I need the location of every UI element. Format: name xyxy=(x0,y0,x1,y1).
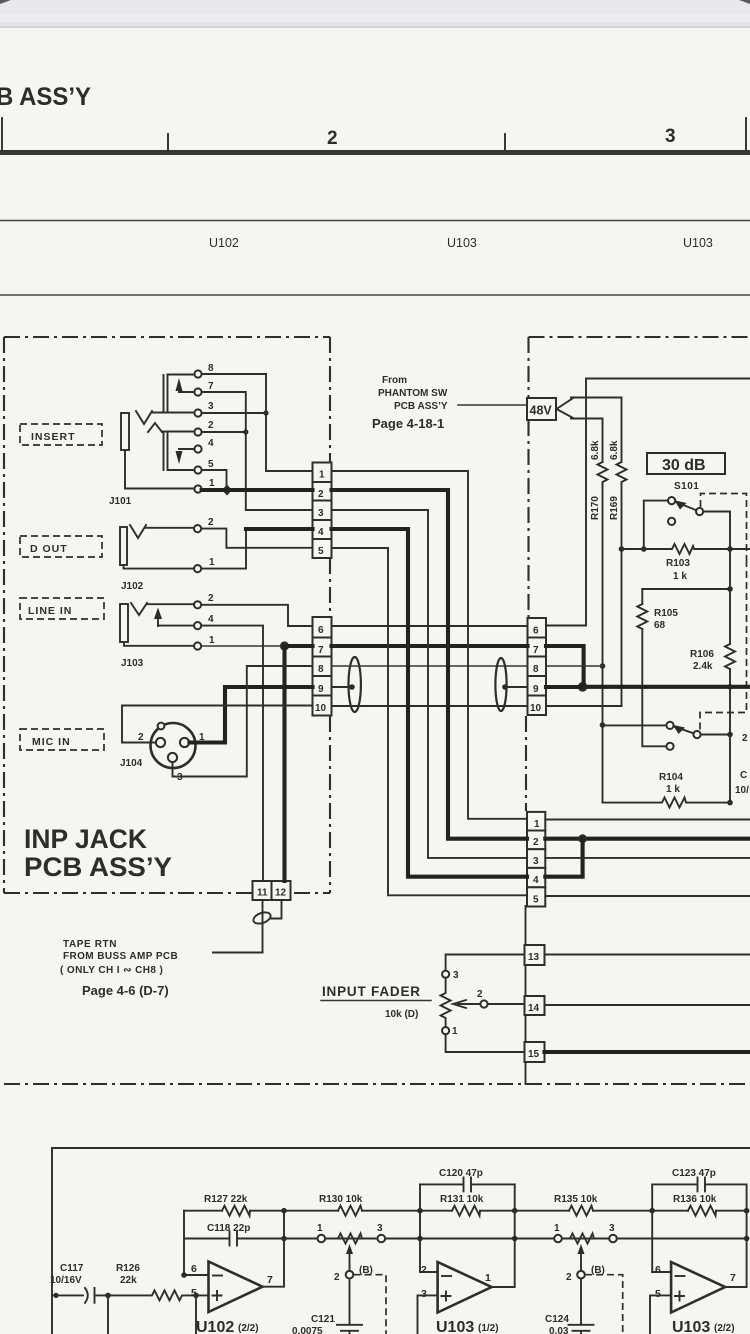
svg-text:R105: R105 xyxy=(654,608,678,619)
op-amp U102 triangle xyxy=(209,1262,263,1313)
svg-text:C: C xyxy=(740,770,747,781)
svg-text:2: 2 xyxy=(533,837,539,848)
connector CN-A pin 2 xyxy=(313,482,332,501)
pad bus y549 xyxy=(622,548,750,550)
svg-text:3: 3 xyxy=(665,126,676,147)
junction pin3 on pin8 net xyxy=(263,410,268,415)
jack J103 tip contact V xyxy=(131,603,147,615)
XLR pin 2 contact xyxy=(156,738,165,747)
pot1 terminal 3 xyxy=(378,1235,386,1243)
resistor R127 zigzag xyxy=(222,1206,250,1216)
connector CN-D pin 4 xyxy=(527,868,545,887)
wire J101-7 to CN-A3 xyxy=(202,392,313,510)
ruler tick left xyxy=(1,118,3,150)
svg-text:7: 7 xyxy=(318,645,324,656)
INP JACK PCB border top xyxy=(4,336,330,338)
XLR J104 shell xyxy=(151,723,196,768)
wire CN-B6 to CN-C6 xyxy=(332,625,528,627)
wire CN-D3 right xyxy=(545,857,750,859)
connector spine below box14 xyxy=(525,1015,527,1042)
wire XLR-2 loop to CN-B10 xyxy=(122,706,313,743)
wire CN-D2 right thick xyxy=(545,837,750,841)
input riser U103a xyxy=(419,1184,421,1272)
wire J101-2 stub xyxy=(202,431,246,433)
connector CN-C pin 10 xyxy=(528,696,547,716)
feedback riser left xyxy=(183,1211,185,1275)
svg-text:D OUT: D OUT xyxy=(30,543,68,555)
XLR pin 3 contact xyxy=(168,753,177,762)
pot2 terminal 1 xyxy=(554,1235,562,1243)
resistor R106 zigzag vertical xyxy=(725,644,735,669)
svg-text:( ONLY CH I ∾ CH8 ): ( ONLY CH I ∾ CH8 ) xyxy=(60,965,163,976)
INP JACK PCB border bottom xyxy=(4,892,330,894)
svg-text:S101: S101 xyxy=(674,481,699,492)
svg-text:6: 6 xyxy=(191,1263,197,1275)
svg-text:8: 8 xyxy=(533,664,539,675)
svg-text:9: 9 xyxy=(318,684,324,695)
connector spine below box15 xyxy=(525,1062,527,1084)
wire pot2 wiper to C124 xyxy=(580,1279,582,1325)
svg-text:2: 2 xyxy=(334,1272,340,1283)
label box LINE IN xyxy=(20,598,104,619)
U103b minus sign xyxy=(676,1275,685,1277)
svg-text:(1/2): (1/2) xyxy=(478,1323,499,1334)
connector CN-C pin 6 xyxy=(528,618,547,638)
J101 pin 3 circle xyxy=(194,409,201,416)
wire J103-4 to CN11 xyxy=(202,626,263,881)
wire R169 down to CN-C10 level xyxy=(621,484,623,706)
shield ellipse right xyxy=(495,658,506,711)
wire C120 line xyxy=(420,1183,515,1185)
jack J102 tip contact V xyxy=(130,525,146,538)
capacitor C118 xyxy=(230,1232,238,1246)
wire R135 line xyxy=(515,1210,653,1212)
ruler tick right xyxy=(745,118,747,150)
wire R131 line xyxy=(420,1210,515,1212)
pointer line tape rtn xyxy=(213,952,263,954)
svg-text:C124: C124 xyxy=(545,1314,569,1325)
svg-text:4: 4 xyxy=(533,875,539,886)
junction out3/R136 xyxy=(744,1208,750,1214)
svg-text:1 k: 1 k xyxy=(666,784,680,795)
J101 pin 5 circle xyxy=(194,466,201,473)
svg-text:C121: C121 xyxy=(311,1314,335,1325)
svg-text:3: 3 xyxy=(609,1223,615,1234)
connector CN-C pin 7 xyxy=(528,638,547,657)
svg-text:U103: U103 xyxy=(436,1319,474,1334)
dashed gang linkage mid xyxy=(700,560,747,730)
svg-text:U103: U103 xyxy=(447,236,477,250)
S101a throw contact xyxy=(696,508,703,515)
svg-text:2.4k: 2.4k xyxy=(693,661,713,672)
junction S101b throw xyxy=(727,732,733,738)
svg-text:13: 13 xyxy=(528,952,540,963)
S101b throw contact xyxy=(693,731,700,738)
wire J101 bar bottom to pin5 xyxy=(168,469,195,471)
connector CN-B pin 7 xyxy=(313,638,332,657)
connector CN-A pin 4 xyxy=(313,520,332,539)
pot2 element zigzag xyxy=(570,1234,594,1244)
jack J101 body bar xyxy=(121,413,129,450)
connector pin 12 xyxy=(272,881,291,900)
J103 pin 1 circle xyxy=(194,642,201,649)
wire J102-2 to CN-A5 xyxy=(202,529,313,548)
wire thick CN12 riser xyxy=(282,646,286,881)
jack J101 normalling bars lower xyxy=(164,433,168,470)
wire fader-1 to CN15 xyxy=(446,1034,525,1052)
wire 48V to R169 top xyxy=(571,398,622,463)
U103a plus sign xyxy=(442,1292,451,1301)
fader terminal 1 xyxy=(442,1027,449,1034)
svg-text:J101: J101 xyxy=(109,496,132,507)
junction riser/rail xyxy=(417,1236,423,1242)
svg-text:30 dB: 30 dB xyxy=(662,457,706,474)
svg-text:7: 7 xyxy=(533,645,539,656)
svg-text:22k: 22k xyxy=(120,1275,137,1286)
op-amp U103a triangle xyxy=(438,1262,492,1313)
wire J102 tip to pin2 xyxy=(146,527,194,529)
dashed gang linkage upper xyxy=(701,494,747,561)
svg-text:R170: R170 xyxy=(590,496,601,520)
ruler tick x168 xyxy=(167,134,169,150)
wire CN-C6 up and over xyxy=(546,379,750,626)
U103a minus sign xyxy=(442,1275,451,1277)
svg-text:Page 4-6 (D-7): Page 4-6 (D-7) xyxy=(82,983,169,998)
svg-text:J104: J104 xyxy=(120,758,143,769)
pot rail y1238 xyxy=(284,1238,747,1240)
wire CN-A1 right nested xyxy=(332,471,528,819)
svg-text:1: 1 xyxy=(485,1272,491,1284)
resistor R130 zigzag xyxy=(338,1206,362,1216)
wire CN-D5 right xyxy=(545,895,750,897)
svg-text:PHANTOM SW: PHANTOM SW xyxy=(378,388,448,399)
big junction mic bus xyxy=(578,682,588,692)
svg-text:10: 10 xyxy=(530,703,542,714)
junction dot line-in 1 xyxy=(280,641,289,650)
connector CN-A pin 3 xyxy=(313,501,332,521)
J101 pin 2 circle xyxy=(194,428,201,435)
svg-text:FROM BUSS AMP PCB: FROM BUSS AMP PCB xyxy=(63,951,178,962)
svg-text:U102: U102 xyxy=(196,1319,234,1334)
svg-text:48V: 48V xyxy=(530,404,553,418)
wire CN-C9 stub thick xyxy=(546,685,581,689)
wire tip V to pin3 xyxy=(152,412,194,414)
XLR pin 1 contact xyxy=(180,738,189,747)
svg-text:2: 2 xyxy=(138,732,144,743)
resistor R126 zigzag xyxy=(150,1290,184,1300)
wire J103-1 to junction xyxy=(202,645,285,647)
svg-text:2: 2 xyxy=(208,517,214,528)
svg-text:3: 3 xyxy=(453,970,459,981)
svg-text:10/16V: 10/16V xyxy=(50,1275,82,1286)
wire J103 ring arrow to pin4 xyxy=(158,625,194,627)
INP JACK PCB border right (lower) xyxy=(329,716,331,893)
twisted pair loop xyxy=(252,910,272,926)
svg-text:U103: U103 xyxy=(672,1319,710,1334)
output riser U103a xyxy=(492,1184,515,1287)
wire CN-B9 shield stub right xyxy=(332,686,352,688)
U102 minus sign xyxy=(213,1275,222,1277)
mic thick bus y687 xyxy=(583,685,750,689)
svg-text:11: 11 xyxy=(257,888,268,899)
corner mark left xyxy=(0,0,11,4)
capacitor C121 xyxy=(337,1325,362,1334)
svg-text:R106: R106 xyxy=(690,649,714,660)
ruler heavy line xyxy=(0,150,750,155)
junction bus/R106 xyxy=(727,546,733,552)
wire J102-1 to CN-A4 xyxy=(202,529,246,569)
svg-text:R103: R103 xyxy=(666,558,690,569)
svg-text:2: 2 xyxy=(208,593,214,604)
svg-text:3: 3 xyxy=(208,401,214,412)
resistor R105 zigzag vertical xyxy=(637,604,647,629)
INP JACK PCB border right (mid) xyxy=(329,558,331,617)
junction drop 2 xyxy=(193,1293,199,1299)
label box INSERT xyxy=(20,424,102,445)
junction R170/box8 xyxy=(600,663,606,669)
resistor R104 zigzag xyxy=(660,798,688,808)
junction CN-D2 xyxy=(578,834,587,843)
J103 pin 4 circle xyxy=(194,622,201,629)
wire pin4 stub to arrow xyxy=(179,448,194,450)
wire J103 sleeve to pin1 xyxy=(124,642,194,646)
horizontal rule y220 xyxy=(0,220,750,222)
wire J101 bar top to pin8 xyxy=(168,374,195,376)
wire J101-1 to CN-A2 thick xyxy=(202,488,313,492)
wire S101b throw to R106 net xyxy=(701,734,730,736)
svg-text:TAPE RTN: TAPE RTN xyxy=(63,939,117,950)
S101b lever xyxy=(675,727,694,734)
svg-text:(2/2): (2/2) xyxy=(714,1323,735,1334)
J102 pin 1 circle xyxy=(194,565,201,572)
svg-text:B ASS’Y: B ASS’Y xyxy=(0,83,91,111)
fader wiper arrow xyxy=(453,1000,480,1008)
junction feedback riser xyxy=(181,1272,187,1278)
svg-text:INP JACK: INP JACK xyxy=(24,824,147,854)
J101 pin 7 circle xyxy=(194,388,201,395)
svg-text:Page 4-18-1: Page 4-18-1 xyxy=(372,416,444,431)
junction out2/R131 xyxy=(512,1208,518,1214)
status bar strip xyxy=(0,0,750,27)
U102 plus sign xyxy=(213,1291,222,1300)
wire fader-3 to CN13 xyxy=(446,955,525,971)
connector CN-A pin 5 xyxy=(313,539,332,558)
shield stub dot xyxy=(349,684,355,690)
wire U103a pin2 xyxy=(420,1271,438,1273)
svg-text:6.8k: 6.8k xyxy=(609,440,620,460)
svg-text:2: 2 xyxy=(477,989,483,1000)
label box D OUT xyxy=(20,536,102,557)
svg-text:1 k: 1 k xyxy=(673,571,687,582)
connector CN-D pin 3 xyxy=(527,849,545,868)
wire R106 bottom xyxy=(729,669,731,803)
bias drop wire 2 xyxy=(195,1295,197,1334)
connector CN-D pin 5 xyxy=(527,887,545,906)
svg-text:R104: R104 xyxy=(659,772,683,783)
svg-text:1: 1 xyxy=(209,635,215,646)
connector pin 11 xyxy=(253,881,272,900)
svg-text:2: 2 xyxy=(421,1264,427,1276)
svg-text:1: 1 xyxy=(452,1026,458,1037)
shield dot right xyxy=(502,684,508,690)
wire CN-A3 right nested xyxy=(332,510,528,858)
pot1 element zigzag xyxy=(338,1234,362,1244)
connector spine below box13 xyxy=(525,965,527,996)
svg-text:R169: R169 xyxy=(609,496,620,520)
wire CN-D1 right xyxy=(545,819,750,821)
svg-text:1: 1 xyxy=(319,470,325,481)
svg-text:R130 10k: R130 10k xyxy=(319,1194,363,1205)
capacitor C117 xyxy=(85,1288,95,1303)
wire R105 top xyxy=(641,589,643,604)
J101 pin 8 circle xyxy=(194,370,201,377)
svg-text:PCB ASS’Y: PCB ASS’Y xyxy=(394,401,448,412)
wire C123 line xyxy=(652,1183,746,1185)
wire J103 tip to pin2 xyxy=(147,603,194,605)
svg-text:3: 3 xyxy=(421,1288,427,1300)
svg-text:5: 5 xyxy=(655,1288,661,1300)
wire shield to CN-C9 xyxy=(504,686,528,688)
junction R169/bus549 xyxy=(619,546,625,552)
svg-text:INPUT FADER: INPUT FADER xyxy=(322,984,421,999)
connector CN-C pin 8 xyxy=(528,657,547,677)
svg-text:5: 5 xyxy=(533,895,539,906)
fader element zigzag xyxy=(441,978,451,1027)
pot1 terminal 1 xyxy=(318,1235,326,1243)
svg-text:3: 3 xyxy=(377,1223,383,1234)
wire J102 sleeve to pin1 xyxy=(124,565,195,569)
wire CN-C8 to R170 xyxy=(546,665,603,667)
junction drop 1 xyxy=(105,1293,111,1299)
wire 48V to R170 top xyxy=(571,419,603,463)
ruler tick x505 xyxy=(504,134,506,150)
junction R170/switch wire xyxy=(600,722,606,728)
svg-text:10k (D): 10k (D) xyxy=(385,1009,418,1020)
svg-text:68: 68 xyxy=(654,620,666,631)
svg-text:1: 1 xyxy=(554,1223,560,1234)
junction R104 right xyxy=(727,800,733,806)
connector CN-C pin 9 xyxy=(528,676,547,696)
svg-text:C123 47p: C123 47p xyxy=(672,1168,716,1179)
wire R170 down to R104 corner xyxy=(602,484,604,803)
svg-text:0.03: 0.03 xyxy=(549,1326,569,1334)
pot1 wiper arrow xyxy=(349,1250,351,1271)
svg-text:10: 10 xyxy=(315,703,327,714)
junction y589 right xyxy=(727,586,733,592)
svg-text:R135 10k: R135 10k xyxy=(554,1194,598,1205)
wire CN-A5 right nested xyxy=(332,548,528,895)
label box MIC IN xyxy=(20,729,104,750)
input riser U103b xyxy=(651,1184,653,1272)
resistor R169 zigzag xyxy=(617,462,627,484)
svg-text:8: 8 xyxy=(318,664,324,675)
svg-text:1: 1 xyxy=(209,478,215,489)
jack J101 contact arrow up xyxy=(176,378,183,391)
wire CN14 right xyxy=(545,1004,750,1006)
svg-text:7: 7 xyxy=(730,1272,736,1284)
svg-text:6: 6 xyxy=(533,626,539,637)
connector CN-A pin 1 xyxy=(313,463,332,483)
svg-text:4: 4 xyxy=(208,438,214,449)
connector pin 14 xyxy=(525,996,545,1015)
svg-text:10/: 10/ xyxy=(735,785,749,796)
connector CN-B pin 6 xyxy=(313,617,332,638)
INPUT FADER underline xyxy=(321,1000,431,1002)
wire XLR-3 to CN-B8 xyxy=(173,666,313,777)
S101a lever xyxy=(676,502,696,510)
wire CN-B8 to CN-C8 xyxy=(332,665,528,667)
resistor R131 zigzag xyxy=(452,1206,480,1216)
wire U103b pin6 xyxy=(652,1271,671,1273)
capacitor C123 xyxy=(698,1177,706,1191)
op-amp U103b triangle xyxy=(671,1262,725,1313)
svg-text:MIC IN: MIC IN xyxy=(32,736,71,748)
wire J103-2 to CN-B6 xyxy=(202,605,313,626)
S101a common contact xyxy=(668,497,675,504)
feedback top wire R127 xyxy=(184,1210,284,1212)
resistor R103 zigzag xyxy=(670,544,696,554)
svg-text:LINE IN: LINE IN xyxy=(28,605,72,617)
connector CN-D pin 2 xyxy=(527,831,545,850)
wire CN11 down to pointer xyxy=(262,900,264,953)
svg-text:R136 10k: R136 10k xyxy=(673,1194,717,1205)
connector CN-B pin 9 xyxy=(313,676,332,696)
jack J103 body bar xyxy=(120,604,128,642)
horizontal rule y295 xyxy=(0,294,750,296)
svg-text:3: 3 xyxy=(177,772,183,783)
resistor R135 zigzag xyxy=(569,1206,593,1216)
svg-text:7: 7 xyxy=(208,381,214,392)
INP JACK PCB border right (upper) xyxy=(329,337,331,462)
wire fader-2 to CN14 xyxy=(488,1003,525,1005)
input wire to C117 xyxy=(52,1294,83,1296)
wire CN-D2 to CN-D4 jog thick xyxy=(545,839,582,877)
svg-text:4: 4 xyxy=(208,614,214,625)
wire U102 pin6 xyxy=(184,1274,209,1276)
jack J101 ring contact caret xyxy=(148,423,162,432)
svg-text:6.8k: 6.8k xyxy=(590,440,601,460)
svg-text:J103: J103 xyxy=(121,658,144,669)
junction diamond at pin1 xyxy=(222,485,232,496)
svg-text:2: 2 xyxy=(742,733,748,744)
svg-text:5: 5 xyxy=(318,546,324,557)
S101a NC contact xyxy=(668,518,675,525)
svg-text:C120 47p: C120 47p xyxy=(439,1168,483,1179)
S101b common contact xyxy=(666,722,673,729)
fader wiper terminal 2 xyxy=(480,1000,487,1007)
wire J101 arrow stem pin7 xyxy=(179,391,194,393)
wire R130 line xyxy=(284,1210,420,1212)
connector pin 15 xyxy=(525,1042,545,1062)
svg-text:3: 3 xyxy=(318,508,324,519)
bias drop wire 1 xyxy=(107,1295,109,1334)
wire CN13 right xyxy=(545,954,750,956)
svg-text:14: 14 xyxy=(528,1003,540,1014)
resistor R136 zigzag xyxy=(688,1206,716,1216)
wire pot1 wiper to C121 xyxy=(349,1279,351,1325)
pot1 wiper terminal 2 xyxy=(346,1271,354,1279)
S101a lever arrowhead xyxy=(675,500,687,509)
junction pin2 on pin7 net xyxy=(243,429,248,434)
phantom pointer wire xyxy=(458,404,527,406)
capacitor C124 xyxy=(569,1325,594,1334)
svg-text:1: 1 xyxy=(534,819,540,830)
wire CN15 right thick xyxy=(545,1050,750,1054)
wire S101a common left xyxy=(644,501,668,549)
svg-text:U103: U103 xyxy=(683,236,713,250)
connector CN-B pin 8 xyxy=(313,657,332,677)
svg-text:1: 1 xyxy=(209,557,215,568)
